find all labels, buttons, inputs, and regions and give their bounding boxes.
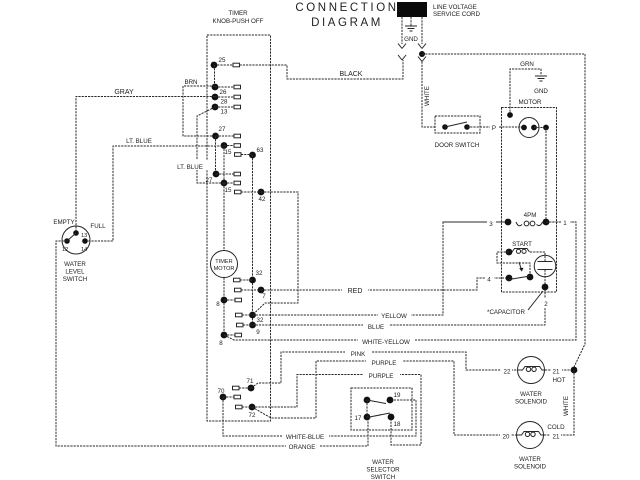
wire GRN + ground <box>510 61 547 115</box>
wire YELLOW (32 to motor 3) <box>253 222 506 320</box>
svg-text:1: 1 <box>563 220 567 227</box>
label *CAPACITOR with pointer <box>487 291 543 316</box>
start winding <box>506 249 545 257</box>
receptacle arrow white side <box>418 57 426 62</box>
wire WHITE-YELLOW (8 to motor 1) <box>224 222 576 346</box>
timer motor circle <box>211 251 238 278</box>
svg-text:PURPLE: PURPLE <box>372 360 397 367</box>
svg-text:PURPLE: PURPLE <box>369 373 394 380</box>
hot water solenoid <box>501 357 571 385</box>
svg-text:YELLOW: YELLOW <box>381 313 407 320</box>
svg-text:12: 12 <box>62 247 68 253</box>
wire ORANGE (water level 12 to selector 17) <box>56 241 368 451</box>
svg-text:PINK: PINK <box>351 351 366 358</box>
label WATER LEVEL SWITCH <box>63 261 87 283</box>
svg-text:SWITCH: SWITCH <box>63 276 87 283</box>
svg-text:18: 18 <box>394 421 401 428</box>
terminal 32 lower <box>236 312 264 324</box>
svg-text:21: 21 <box>553 434 560 441</box>
svg-text:32: 32 <box>257 317 264 324</box>
title CONNECTION DIAGRAM <box>295 2 398 29</box>
svg-text:15: 15 <box>225 149 232 156</box>
svg-text:14: 14 <box>81 247 87 253</box>
svg-text:SELECTOR: SELECTOR <box>366 467 400 474</box>
wire 27 to 27 <box>215 136 217 174</box>
terminal 28 <box>212 94 241 106</box>
svg-text:GRN: GRN <box>520 61 534 68</box>
svg-text:START: START <box>512 241 532 248</box>
svg-text:WATER: WATER <box>519 456 541 463</box>
svg-text:WHITE: WHITE <box>563 396 570 416</box>
svg-text:BLACK: BLACK <box>340 71 363 78</box>
svg-text:SOLENOID: SOLENOID <box>515 399 548 406</box>
svg-text:TIMER: TIMER <box>228 10 248 17</box>
terminal 27 upper <box>212 126 240 139</box>
door switch <box>435 116 480 149</box>
label LINE VOLTAGE SERVICE CORD <box>433 4 481 18</box>
terminal 15 upper <box>221 142 241 156</box>
wire PURPLE (72 to selector 18) <box>252 370 421 445</box>
svg-text:KNOB-PUSH OFF: KNOB-PUSH OFF <box>213 18 264 25</box>
svg-text:LT. BLUE: LT. BLUE <box>177 164 203 171</box>
svg-text:32: 32 <box>256 270 263 277</box>
svg-text:63: 63 <box>257 147 264 154</box>
motor box <box>502 108 557 293</box>
svg-text:WHITE-YELLOW: WHITE-YELLOW <box>362 339 410 346</box>
wire 25 to 26 <box>214 65 216 87</box>
label TIMER KNOB-PUSH OFF <box>213 10 264 25</box>
terminal 8 upper <box>216 297 241 308</box>
terminal 32 upper <box>234 270 263 283</box>
main winding 4PM <box>505 212 550 226</box>
svg-text:7: 7 <box>262 293 266 300</box>
wire motor 3 <box>443 218 505 228</box>
svg-text:ORANGE: ORANGE <box>289 444 316 451</box>
wire white down to cold solenoid <box>544 370 574 435</box>
service cord plug (black box) <box>397 2 427 17</box>
wire 15 to 15 <box>223 146 225 184</box>
switch arrow <box>519 262 524 272</box>
wire LT. BLUE lower (water level 14 to 15) <box>85 138 224 241</box>
label WATER SOLENOID (hot) <box>515 391 548 406</box>
svg-text:BRN: BRN <box>184 79 197 86</box>
node white/hot junction <box>571 367 578 374</box>
svg-text:20: 20 <box>503 434 510 441</box>
wire motor 1 <box>546 217 576 227</box>
cord ground lead + ground symbol <box>405 17 417 31</box>
svg-text:15: 15 <box>225 187 232 194</box>
wire white cord to door switch <box>422 62 435 128</box>
wire BLACK <box>214 60 403 79</box>
svg-text:RED: RED <box>348 288 363 295</box>
terminal 42 <box>235 189 266 203</box>
wire timer motor to 8 <box>223 278 225 336</box>
wire motor 4 <box>485 274 494 284</box>
wire 15 to timer motor <box>223 183 225 251</box>
svg-text:EMPTY: EMPTY <box>53 219 74 226</box>
terminal 25 <box>211 57 240 68</box>
water selector switch <box>351 388 412 430</box>
svg-text:SWITCH: SWITCH <box>371 474 395 480</box>
svg-text:WHITE-BLUE: WHITE-BLUE <box>286 434 324 441</box>
svg-text:4: 4 <box>487 277 491 284</box>
svg-text:13: 13 <box>221 109 228 116</box>
terminal 63 <box>235 147 264 158</box>
node: white junction <box>419 51 425 57</box>
label WATER SOLENOID (cold) <box>514 456 547 471</box>
svg-text:P: P <box>492 125 496 132</box>
svg-text:DOOR SWITCH: DOOR SWITCH <box>435 142 480 149</box>
svg-text:MOTOR: MOTOR <box>214 266 235 272</box>
terminal 27 lower <box>206 171 241 184</box>
svg-text:MOTOR: MOTOR <box>519 99 542 106</box>
label 2 <box>541 298 550 308</box>
wire PINK (71 to hot solenoid 22) <box>251 348 517 388</box>
svg-text:DIAGRAM: DIAGRAM <box>311 17 383 29</box>
terminal 9 <box>237 322 261 336</box>
cold water solenoid <box>500 422 565 449</box>
svg-text:26: 26 <box>220 89 227 96</box>
svg-text:GND: GND <box>404 36 418 43</box>
svg-text:27: 27 <box>219 126 226 133</box>
node grn inside motor <box>507 112 513 118</box>
svg-text:WHITE: WHITE <box>424 86 431 106</box>
terminal 8 lower <box>219 332 241 347</box>
wire protector to main winding <box>545 128 547 223</box>
wire 42 to 32 <box>253 192 299 315</box>
wire 63 down to 32 <box>252 155 254 325</box>
svg-text:9: 9 <box>256 329 260 336</box>
svg-text:COLD: COLD <box>547 424 565 431</box>
svg-text:FULL: FULL <box>90 223 106 230</box>
svg-text:WATER: WATER <box>372 459 394 466</box>
cord lead left (black) <box>398 17 406 49</box>
motor thermal protector <box>519 118 549 138</box>
svg-text:GRAY: GRAY <box>114 89 134 96</box>
svg-text:21: 21 <box>553 369 560 376</box>
svg-text:WATER: WATER <box>520 391 542 398</box>
svg-text:71: 71 <box>247 378 254 385</box>
svg-text:LT. BLUE: LT. BLUE <box>126 138 152 145</box>
water level switch <box>62 226 90 254</box>
wire RED (7 to motor 4) <box>261 278 506 295</box>
start winding bracket to switch <box>497 252 530 274</box>
svg-text:TIMER: TIMER <box>215 259 232 265</box>
svg-text:GND: GND <box>534 88 548 95</box>
svg-text:SOLENOID: SOLENOID <box>514 464 547 471</box>
svg-text:3: 3 <box>489 221 493 228</box>
terminal 7 <box>235 287 267 300</box>
wire white top run to motor area <box>422 54 585 367</box>
svg-text:42: 42 <box>259 196 266 203</box>
svg-text:25: 25 <box>219 57 226 64</box>
wire WHITE-BLUE (70 to selector 19) <box>223 397 416 441</box>
svg-text:28: 28 <box>221 99 228 106</box>
svg-text:19: 19 <box>394 392 401 399</box>
terminal 72 <box>236 404 256 419</box>
svg-text:70: 70 <box>218 388 225 395</box>
svg-text:HOT: HOT <box>552 377 565 384</box>
terminal 71 <box>233 378 255 391</box>
timer box <box>207 35 271 421</box>
receptacle arrow black side <box>398 55 406 60</box>
wire GRAY <box>76 89 215 233</box>
svg-text:22: 22 <box>504 369 511 376</box>
cord lead right (white) <box>418 17 426 49</box>
terminal 26 <box>212 84 241 96</box>
capacitor <box>534 255 556 290</box>
wire BLUE (9 to capacitor 2) <box>253 287 546 331</box>
svg-text:2: 2 <box>544 301 548 308</box>
label WATER SELECTOR SWITCH <box>366 459 400 480</box>
svg-text:LINE VOLTAGE: LINE VOLTAGE <box>433 4 477 11</box>
svg-text:CONNECTION: CONNECTION <box>295 2 398 14</box>
terminal 15 lower <box>221 180 241 194</box>
terminal 70 <box>218 388 241 400</box>
svg-text:SERVICE CORD: SERVICE CORD <box>433 11 481 18</box>
wire BRN <box>183 79 215 136</box>
svg-text:17: 17 <box>355 415 362 422</box>
svg-text:BLUE: BLUE <box>368 324 384 331</box>
svg-text:LEVEL: LEVEL <box>65 269 85 276</box>
svg-text:8: 8 <box>216 301 220 308</box>
svg-text:13: 13 <box>81 233 87 239</box>
svg-text:4PM: 4PM <box>524 212 537 219</box>
svg-text:72: 72 <box>249 412 256 419</box>
svg-text:WATER: WATER <box>64 261 86 268</box>
wire LT. BLUE upper (13 to 15) <box>172 107 224 183</box>
terminal 13 (timer) <box>212 104 241 116</box>
svg-text:*CAPACITOR: *CAPACITOR <box>487 309 525 316</box>
svg-text:8: 8 <box>219 340 223 347</box>
wire PURPLE (72 to cold solenoid 20) <box>252 357 516 435</box>
wire door switch to motor P <box>467 122 524 132</box>
centrifugal switch arm <box>506 274 534 282</box>
